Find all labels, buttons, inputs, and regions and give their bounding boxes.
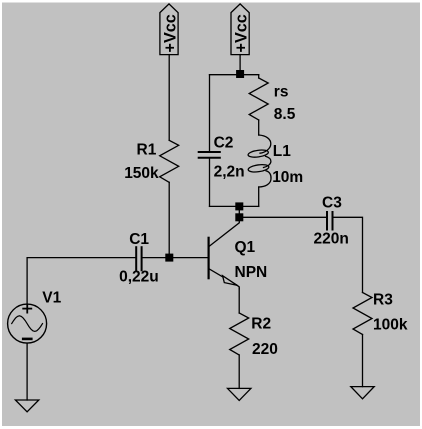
wire Vcc2 stem [239, 55, 241, 75]
svg-text:rs: rs [274, 84, 289, 101]
wire tank bottom rail [210, 205, 259, 207]
transistor Q1 NPN [209, 217, 268, 289]
svg-text:R1: R1 [137, 142, 157, 159]
wire V1 bottom to ground [26, 343, 28, 400]
node base junction [165, 254, 173, 262]
power flag +Vcc (right) [231, 4, 251, 55]
wire C3 to R3 [334, 217, 363, 292]
node tank bottom [235, 202, 243, 210]
svg-text:10m: 10m [272, 169, 303, 186]
svg-text:0,22u: 0,22u [119, 268, 159, 285]
svg-text:+Vcc: +Vcc [161, 14, 179, 52]
svg-text:R3: R3 [373, 292, 393, 309]
svg-text:C2: C2 [214, 134, 234, 151]
svg-text:150k: 150k [124, 165, 159, 182]
svg-text:C1: C1 [129, 231, 149, 248]
wire V1 top corner to C1 [27, 258, 135, 305]
wire R3 to ground [362, 335, 364, 387]
wire emitter to R2 [238, 288, 240, 313]
svg-text:L1: L1 [273, 143, 291, 160]
node tank top [236, 70, 244, 78]
svg-text:NPN: NPN [235, 264, 268, 281]
resistor R1 [124, 140, 179, 182]
svg-text:+Vcc: +Vcc [233, 14, 251, 52]
resistor R3 100k [353, 292, 408, 335]
resistor rs [249, 75, 296, 124]
resistor R2 220 [230, 313, 278, 358]
svg-text:2,2n: 2,2n [214, 163, 245, 180]
wire C1 to transistor base [143, 257, 209, 259]
wire collector node to C3 [239, 216, 326, 218]
wire tank bottom to collector node [238, 206, 240, 217]
svg-text:220n: 220n [314, 231, 349, 248]
ground (R2) [228, 388, 251, 400]
power flag +Vcc (left) [160, 4, 180, 55]
svg-text:C3: C3 [322, 195, 342, 212]
capacitor C2 2,2n [199, 75, 245, 207]
svg-text:V1: V1 [42, 289, 61, 306]
svg-text:100k: 100k [373, 316, 408, 333]
wire R1 bottom to base node [168, 182, 170, 257]
node collector [235, 213, 243, 221]
wire R2 to ground [238, 355, 240, 388]
voltage source V1 [8, 289, 62, 343]
svg-text:8.5: 8.5 [274, 106, 296, 123]
svg-text:R2: R2 [251, 316, 271, 333]
capacitor C1 0,22u [119, 231, 159, 285]
wire Vcc1 stem to R1 [168, 55, 170, 141]
ground (V1) [15, 400, 38, 412]
wire tank top rail [210, 74, 259, 76]
ground (R3) [351, 387, 374, 399]
inductor L1 10m [248, 120, 304, 206]
capacitor C3 220n [314, 195, 349, 248]
svg-text:220: 220 [252, 341, 278, 358]
svg-text:Q1: Q1 [235, 239, 256, 256]
